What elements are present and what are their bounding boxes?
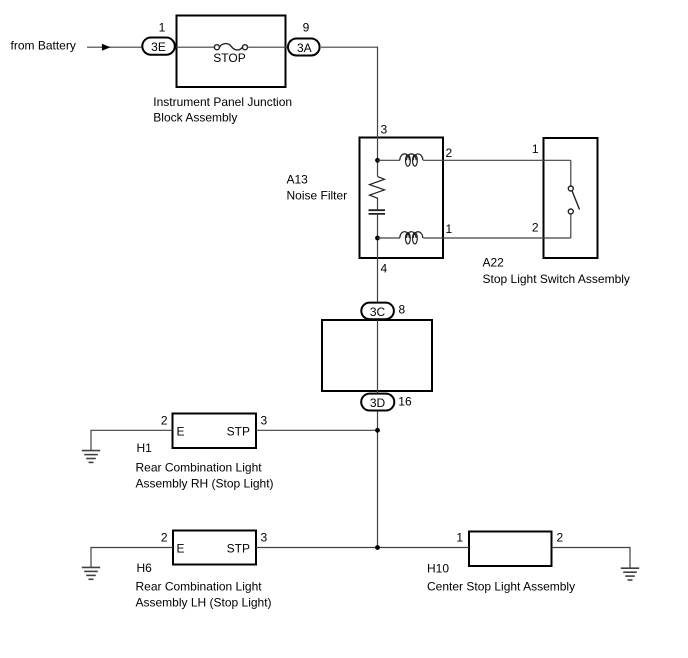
- label A22 Stop Light Switch Assembly: [483, 255, 630, 286]
- label H1 Rear Combination Light Assembly RH: [136, 441, 274, 490]
- wire capacitor down through pin 4 to lower junction: [377, 214, 379, 548]
- svg-text:Assembly LH (Stop Light): Assembly LH (Stop Light): [136, 595, 272, 609]
- inductor L2 (bottom coil): [400, 232, 423, 244]
- wire L2 to switch (noise filter pin 1 to A22 pin 2): [423, 237, 571, 239]
- svg-text:1: 1: [446, 222, 453, 236]
- svg-text:H1: H1: [137, 441, 153, 455]
- ground H10: [621, 568, 639, 580]
- svg-text:2: 2: [446, 146, 453, 160]
- svg-text:3: 3: [261, 531, 268, 545]
- svg-text:STOP: STOP: [213, 51, 245, 65]
- ground H6: [82, 548, 173, 580]
- capacitor inside noise filter: [369, 210, 386, 214]
- ground H1: [82, 430, 173, 462]
- svg-text:2: 2: [161, 414, 168, 428]
- svg-text:E: E: [177, 541, 185, 555]
- svg-text:Block Assembly: Block Assembly: [153, 111, 237, 125]
- svg-text:16: 16: [398, 395, 412, 409]
- svg-text:3D: 3D: [370, 396, 386, 410]
- resistor inside noise filter: [370, 177, 385, 200]
- svg-text:4: 4: [381, 262, 388, 276]
- wire resistor to capacitor: [377, 200, 379, 211]
- wire fuse to 3A: [248, 46, 289, 48]
- label H6 Rear Combination Light Assembly LH: [136, 561, 272, 609]
- svg-text:STP: STP: [227, 424, 250, 438]
- wire L1 to switch (noise filter pin 2 to A22 pin 1): [423, 159, 571, 161]
- svg-text:Center Stop Light Assembly: Center Stop Light Assembly: [427, 579, 575, 593]
- svg-text:A13: A13: [287, 173, 309, 187]
- svg-text:Rear Combination Light: Rear Combination Light: [136, 580, 263, 594]
- svg-text:Assembly RH (Stop Light): Assembly RH (Stop Light): [136, 476, 274, 490]
- svg-text:1: 1: [532, 142, 539, 156]
- label H10 Center Stop Light Assembly: [427, 562, 575, 594]
- inductor L1 (top coil): [400, 154, 423, 166]
- wire junction to inductor L2: [378, 237, 401, 239]
- center stop light H10 box: [469, 532, 552, 567]
- svg-text:STP: STP: [227, 541, 250, 555]
- rear combination light H1 box: [173, 414, 257, 449]
- node junction dot inside noise filter (bottom): [375, 236, 380, 241]
- node junction dot at H1 branch: [375, 428, 380, 433]
- wire H10 pin 2 to ground: [552, 548, 631, 569]
- svg-text:3C: 3C: [370, 305, 386, 319]
- svg-text:3: 3: [261, 414, 268, 428]
- fuse STOP: [214, 44, 247, 50]
- connector 3D: [361, 394, 394, 411]
- connector 3C: [361, 303, 394, 320]
- svg-text:3E: 3E: [151, 40, 166, 54]
- switch inside A22: [568, 160, 579, 238]
- svg-text:3A: 3A: [297, 41, 312, 55]
- svg-text:1: 1: [456, 531, 463, 545]
- svg-text:Rear Combination Light: Rear Combination Light: [136, 461, 263, 475]
- wire 3E to fuse: [176, 46, 214, 48]
- svg-text:from Battery: from Battery: [11, 39, 76, 53]
- stop light switch A22 box: [544, 138, 598, 258]
- connector block box between 3C and 3D: [322, 320, 432, 391]
- svg-text:3: 3: [381, 123, 388, 137]
- wire from battery with arrow: [87, 44, 142, 51]
- rear combination light H6 box: [173, 531, 256, 565]
- connector 3A: [288, 39, 320, 56]
- noise filter A13 box: [360, 138, 444, 259]
- label Instrument Panel Junction Block Assembly: [153, 95, 292, 125]
- svg-text:1: 1: [159, 21, 166, 35]
- svg-text:H10: H10: [427, 562, 449, 576]
- svg-text:Instrument Panel Junction: Instrument Panel Junction: [153, 95, 292, 109]
- svg-text:A22: A22: [483, 255, 505, 269]
- svg-text:2: 2: [557, 531, 564, 545]
- svg-text:2: 2: [532, 221, 539, 235]
- wire H1 pin 3 to main vertical: [256, 429, 378, 431]
- node junction dot at bottom branch: [375, 545, 380, 550]
- svg-text:E: E: [177, 424, 185, 438]
- svg-text:Noise Filter: Noise Filter: [287, 188, 348, 202]
- svg-text:2: 2: [161, 531, 168, 545]
- connector 3E: [142, 38, 175, 55]
- svg-text:9: 9: [303, 21, 310, 35]
- label A13 Noise Filter: [287, 173, 348, 203]
- wire H6 pin 3 to H10 pin 1: [256, 547, 469, 549]
- Instrument Panel Junction Block box: [177, 16, 286, 88]
- svg-text:Stop Light Switch Assembly: Stop Light Switch Assembly: [483, 272, 630, 286]
- node junction dot inside noise filter (top): [375, 158, 380, 163]
- svg-text:H6: H6: [137, 561, 153, 575]
- wire 3A to noise filter pin 3: [321, 47, 378, 176]
- wire junction to inductor L1: [378, 159, 401, 161]
- svg-text:8: 8: [399, 303, 406, 317]
